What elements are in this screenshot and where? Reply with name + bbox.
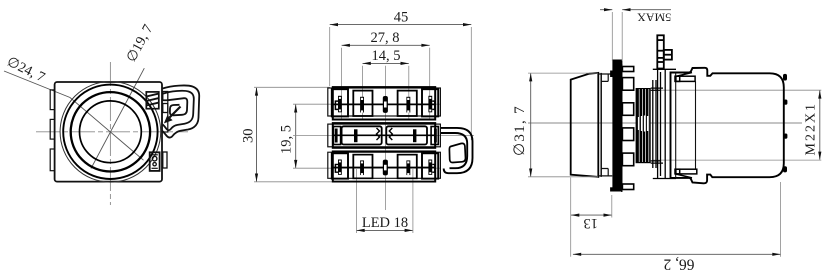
circle d19.7	[80, 101, 142, 163]
bezel ring circle	[63, 85, 157, 179]
adapter ring	[653, 69, 676, 178]
left tab 1	[50, 90, 54, 110]
dim d31.7	[512, 73, 598, 177]
svg-text:5MAX: 5MAX	[637, 10, 671, 24]
contact block body	[671, 68, 784, 184]
M22 extension top	[653, 89, 821, 91]
terminal T4	[398, 91, 417, 116]
head rim bottom step	[598, 169, 612, 176]
body square front	[55, 82, 162, 182]
head rim top step	[598, 74, 612, 81]
diameter line 24.7	[4, 71, 144, 160]
thread end caps	[651, 88, 663, 163]
dim M22X1	[804, 90, 822, 160]
bottom latch plate	[675, 169, 697, 178]
middle row outer shell	[328, 124, 441, 147]
svg-text:45: 45	[394, 10, 409, 26]
svg-text:30: 30	[241, 129, 257, 144]
body internal lines	[675, 73, 677, 178]
key detail bottom-right	[150, 152, 160, 171]
dim 27.8	[342, 30, 430, 120]
middle left cap	[333, 127, 340, 145]
svg-text:14, 5: 14, 5	[372, 48, 401, 64]
hatched rect top-right	[146, 92, 159, 109]
left tab 3	[50, 149, 54, 171]
circle d24.7	[71, 92, 150, 171]
terminal T5	[422, 89, 438, 116]
centerline horizontal front view	[36, 131, 188, 133]
dim 66.2	[571, 178, 781, 273]
anti-rotation tab	[657, 35, 672, 68]
svg-text:19, 5: 19, 5	[279, 125, 295, 154]
terminal T1	[332, 89, 348, 116]
top row outer shell	[328, 88, 441, 116]
centerline horizontal side view	[528, 122, 802, 124]
wire clip inner arrow	[170, 107, 181, 118]
terminal T2	[353, 91, 372, 116]
dim 5MAX	[600, 8, 671, 61]
washer ring	[653, 72, 661, 176]
mounting clip back view inner	[441, 133, 467, 168]
svg-text:M22X1: M22X1	[804, 102, 819, 156]
middle row	[328, 123, 441, 148]
top row main block	[333, 87, 435, 119]
dim 19.5	[279, 104, 475, 168]
svg-text:66, 2: 66, 2	[664, 255, 695, 272]
svg-text:13: 13	[584, 215, 599, 231]
contact housing H2	[386, 126, 427, 144]
flange bottom lip	[610, 187, 613, 191]
flange gasket (black)	[612, 60, 622, 192]
dim 45	[330, 10, 472, 141]
middle row main block	[333, 123, 435, 148]
center slot	[383, 96, 388, 113]
bayonet teeth column	[622, 64, 634, 192]
dim 30	[241, 87, 333, 182]
centerline vertical front view	[109, 62, 111, 205]
bottom terminal row (copy of top)	[328, 151, 441, 181]
top terminal row	[328, 87, 441, 119]
button head side	[571, 73, 599, 177]
contact housing H1	[342, 126, 382, 144]
bezel outer circle thin	[60, 82, 161, 183]
dim LED 18	[356, 169, 413, 233]
head base second line	[600, 73, 602, 177]
mounting clip back view outer	[441, 128, 473, 173]
right bump bottom	[163, 152, 167, 168]
flange top lip	[610, 71, 613, 78]
top latch plate	[675, 73, 695, 82]
diameter line 19.7	[91, 68, 144, 168]
svg-text:27, 8: 27, 8	[371, 30, 400, 46]
M22 extension bottom	[653, 159, 821, 161]
right bump top	[163, 92, 168, 101]
right contact bumps	[783, 74, 787, 172]
mounting clip buckle	[449, 143, 465, 162]
svg-text:LED 18: LED 18	[362, 215, 408, 231]
svg-text:∅31, 7: ∅31, 7	[512, 105, 528, 156]
middle right cap	[431, 127, 438, 145]
wire clip inner spiral	[168, 98, 187, 115]
right bump top2	[163, 104, 168, 113]
wire clip front view inner	[163, 91, 194, 130]
clip attach block	[162, 100, 168, 132]
wire clip front view outer	[162, 85, 199, 137]
dim 13	[571, 195, 612, 231]
dim 14.5	[363, 48, 409, 210]
thread section	[636, 88, 651, 163]
left tab 2	[50, 119, 54, 139]
